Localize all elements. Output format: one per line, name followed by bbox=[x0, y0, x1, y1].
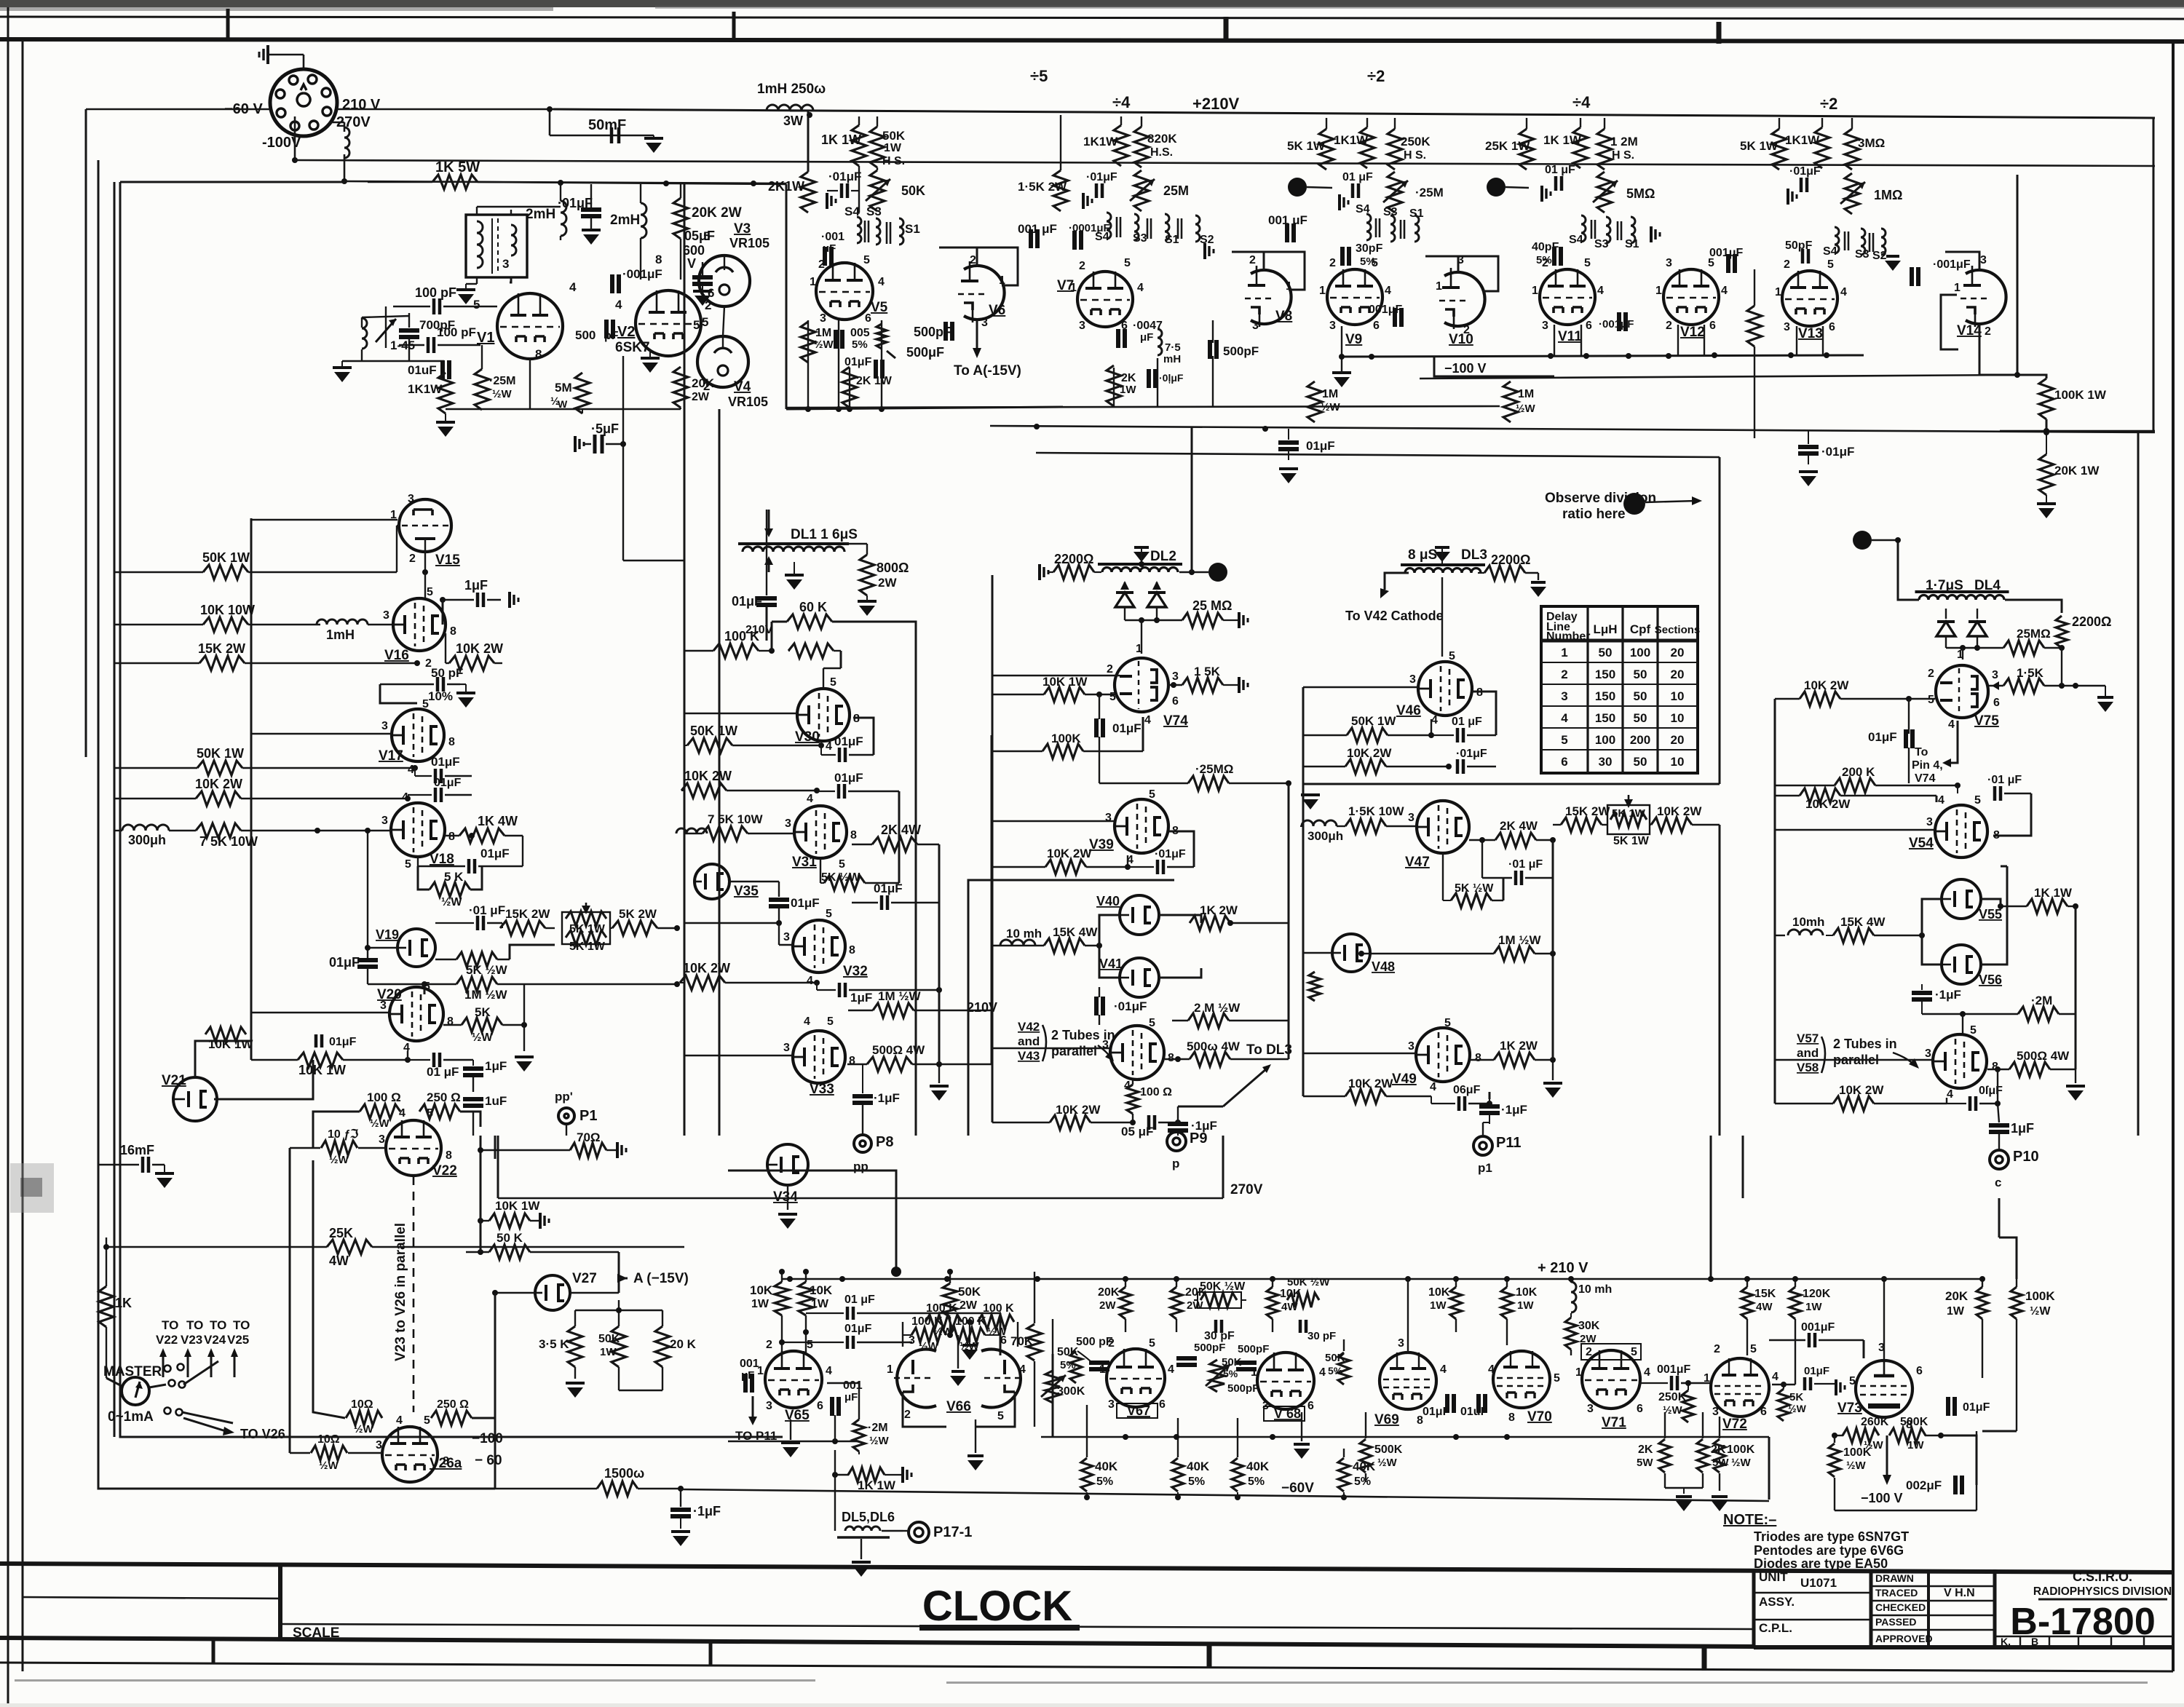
svg-text:6: 6 bbox=[1586, 320, 1592, 332]
svg-text:01μF: 01μF bbox=[1112, 721, 1142, 735]
res 2200ohm dl2 bbox=[1053, 565, 1094, 579]
svg-text:1·5K 2W: 1·5K 2W bbox=[1018, 180, 1067, 194]
svg-text:3: 3 bbox=[1587, 1403, 1594, 1415]
ground 50mF bbox=[644, 137, 663, 140]
cap 001uF v14 bbox=[1910, 267, 1914, 286]
svg-text:½W: ½W bbox=[472, 1031, 493, 1044]
svg-text:½W: ½W bbox=[441, 896, 462, 908]
row 15K2W bbox=[199, 656, 245, 670]
svg-text:10K 2W: 10K 2W bbox=[684, 769, 732, 783]
svg-text:1 2M: 1 2M bbox=[1610, 135, 1638, 148]
tube V56 bbox=[1942, 945, 1981, 984]
svg-text:P9: P9 bbox=[1190, 1130, 1207, 1146]
svg-text:5: 5 bbox=[1149, 1017, 1155, 1029]
svg-text:210 V: 210 V bbox=[342, 97, 381, 113]
svg-text:50K: 50K bbox=[598, 1333, 620, 1345]
cap 001uF v65l bbox=[743, 1374, 748, 1393]
junction 50mF bbox=[547, 106, 553, 112]
wire to P11 bbox=[1489, 1099, 1490, 1104]
tube V73 bbox=[1856, 1361, 1912, 1417]
svg-text:25M: 25M bbox=[1163, 183, 1189, 198]
delay line DL4 bbox=[1915, 590, 2009, 593]
svg-text:3: 3 bbox=[1980, 254, 1987, 266]
svg-text:6: 6 bbox=[1172, 695, 1179, 708]
svg-text:− 60: − 60 bbox=[475, 1453, 502, 1468]
cap 001uF v10 bbox=[1393, 308, 1397, 327]
svg-text:V: V bbox=[687, 256, 696, 271]
svg-text:5: 5 bbox=[1149, 1337, 1155, 1350]
tube V39 bbox=[1115, 799, 1168, 853]
svg-text:·25M: ·25M bbox=[489, 375, 515, 387]
svg-text:½W: ½W bbox=[370, 1117, 390, 1130]
wire diode join dl4 bbox=[1946, 647, 1977, 649]
scan noise top edge bbox=[0, 0, 2184, 7]
res 2200ohm dl3 bbox=[1484, 566, 1525, 580]
svg-text:To: To bbox=[1915, 746, 1928, 759]
res 15K4W r bbox=[1833, 928, 1874, 943]
pot .25M bbox=[1388, 172, 1402, 213]
wire 1K5W row bbox=[368, 181, 432, 183]
svg-text:5: 5 bbox=[830, 676, 836, 689]
svg-text:½W: ½W bbox=[987, 1326, 1008, 1338]
svg-text:20: 20 bbox=[1671, 668, 1685, 681]
bus bottom left segment bbox=[728, 1441, 859, 1443]
inductor 1mH b bbox=[317, 619, 368, 625]
svg-text:1500ω: 1500ω bbox=[604, 1466, 644, 1481]
resistor 2K1W b bbox=[842, 367, 857, 408]
svg-text:V67: V67 bbox=[1127, 1403, 1150, 1418]
resistor 20K 2W bbox=[673, 198, 688, 239]
cap 1uF v20 bbox=[463, 1066, 483, 1071]
wire v1 bottom bbox=[529, 359, 531, 409]
cap 01uF v7 bbox=[1095, 183, 1099, 198]
svg-text:2K: 2K bbox=[1121, 372, 1136, 384]
svg-text:100K: 100K bbox=[1843, 1446, 1872, 1459]
svg-text:·01μF: ·01μF bbox=[1821, 445, 1854, 459]
svg-text:3: 3 bbox=[1108, 1398, 1115, 1411]
svg-text:50mF: 50mF bbox=[588, 117, 626, 133]
svg-text:5: 5 bbox=[703, 229, 710, 243]
delay line DL3 bbox=[1401, 563, 1485, 566]
jack P8 bbox=[854, 1135, 871, 1152]
svg-text:15K 2W: 15K 2W bbox=[1565, 804, 1610, 818]
wire V27 wires bbox=[495, 1292, 535, 1294]
svg-text:2: 2 bbox=[1561, 668, 1567, 681]
svg-text:1: 1 bbox=[1099, 1363, 1106, 1376]
wire V46 pin3 row bbox=[1303, 686, 1418, 688]
svg-text:and: and bbox=[1797, 1046, 1819, 1060]
res 1K4W bbox=[459, 828, 505, 843]
svg-text:1mH: 1mH bbox=[326, 627, 355, 642]
svg-text:5%: 5% bbox=[1060, 1359, 1076, 1371]
svg-text:V H.N: V H.N bbox=[1944, 1587, 1975, 1599]
svg-text:3·5 K: 3·5 K bbox=[539, 1337, 569, 1351]
svg-text:V2: V2 bbox=[617, 324, 635, 340]
tube V65 bbox=[765, 1351, 822, 1408]
svg-text:pp': pp' bbox=[555, 1090, 573, 1104]
svg-text:V41: V41 bbox=[1099, 957, 1123, 971]
svg-text:2: 2 bbox=[818, 258, 825, 271]
wire v75 pin5 bbox=[1909, 698, 1935, 700]
res 10K4W bbox=[1267, 1287, 1278, 1319]
tube V32 bbox=[793, 920, 845, 973]
title block grid bbox=[1752, 1569, 1756, 1647]
svg-text:+210V: +210V bbox=[1192, 95, 1240, 113]
svg-text:10Ω: 10Ω bbox=[351, 1398, 373, 1411]
tube V75 bbox=[1936, 665, 1988, 718]
res 100K half b1 bbox=[911, 1328, 946, 1342]
res 5K half v47 bbox=[1451, 893, 1492, 908]
resistor 5M half bbox=[575, 373, 590, 413]
svg-text:8: 8 bbox=[849, 944, 855, 957]
svg-text:1K: 1K bbox=[115, 1296, 132, 1310]
svg-text:6: 6 bbox=[1916, 1365, 1923, 1377]
res 50K5pc d bbox=[1338, 1352, 1350, 1385]
ground mid 25M bbox=[1301, 793, 1320, 796]
svg-text:μF: μF bbox=[1140, 331, 1153, 344]
res 500uF small bbox=[877, 324, 887, 349]
svg-text:3: 3 bbox=[1409, 673, 1416, 686]
svg-text:H S.: H S. bbox=[882, 155, 905, 167]
svg-text:5: 5 bbox=[702, 315, 708, 329]
svg-text:500: 500 bbox=[575, 328, 596, 342]
svg-text:S3: S3 bbox=[1594, 238, 1609, 250]
res 100K d bbox=[788, 643, 834, 658]
svg-text:·001μF: ·001μF bbox=[622, 267, 662, 281]
svg-text:c: c bbox=[1995, 1176, 2001, 1189]
svg-text:5K: 5K bbox=[1789, 1391, 1803, 1403]
svg-text:100K: 100K bbox=[1727, 1443, 1755, 1456]
cap 01uF e bbox=[874, 360, 878, 379]
tube V18 bbox=[391, 803, 445, 857]
inductor 270V feed bbox=[344, 127, 349, 158]
pot 5K1W pair bbox=[562, 912, 610, 944]
svg-text:1 5K: 1 5K bbox=[1194, 665, 1221, 678]
wire V39 pin3 row bbox=[992, 820, 1115, 822]
svg-text:V57: V57 bbox=[1797, 1031, 1819, 1045]
svg-text:1: 1 bbox=[1070, 282, 1077, 294]
diode D1 bbox=[1115, 593, 1134, 607]
svg-text:50: 50 bbox=[1634, 711, 1647, 725]
row 50K1W bbox=[203, 565, 248, 579]
svg-text:15K 4W: 15K 4W bbox=[1053, 925, 1098, 939]
svg-text:4: 4 bbox=[1561, 711, 1568, 725]
svg-text:600: 600 bbox=[683, 243, 705, 258]
svg-text:V74: V74 bbox=[1163, 713, 1188, 729]
svg-text:5: 5 bbox=[1149, 788, 1155, 801]
wire V30 pin5 bbox=[823, 668, 841, 669]
svg-text:NOTE:–: NOTE:– bbox=[1723, 1512, 1776, 1528]
tube V5 bbox=[816, 263, 873, 320]
wire DL4 left bbox=[1898, 540, 1919, 600]
svg-text:4: 4 bbox=[1597, 285, 1604, 297]
tube V67 bbox=[1107, 1349, 1165, 1407]
tube V7 bbox=[1077, 272, 1133, 327]
wire dl3 col verticals bbox=[1302, 687, 1305, 1096]
svg-text:50K 1W: 50K 1W bbox=[202, 550, 250, 565]
svg-text:40pF: 40pF bbox=[1532, 241, 1559, 253]
frame top tick 3 bbox=[1224, 17, 1229, 41]
tube V3 VR105 bbox=[699, 256, 750, 306]
svg-text:V1: V1 bbox=[477, 330, 494, 346]
svg-text:To V42 Cathode: To V42 Cathode bbox=[1345, 609, 1444, 623]
tube V2 6SK7 bbox=[636, 290, 701, 356]
svg-text:½W: ½W bbox=[933, 1326, 954, 1338]
cap 001uF v6 bbox=[1029, 229, 1033, 248]
svg-text:7 5K 10W: 7 5K 10W bbox=[199, 834, 258, 849]
svg-text:1W: 1W bbox=[1907, 1439, 1924, 1451]
delay line table grid bbox=[1541, 606, 1698, 773]
svg-text:1W: 1W bbox=[884, 142, 902, 154]
cap 01uF v13 bbox=[1800, 178, 1803, 192]
wire v73 top bbox=[1883, 1279, 1885, 1360]
svg-text:S4: S4 bbox=[1095, 231, 1109, 243]
row 10K2W v54a bbox=[1800, 692, 1840, 706]
svg-text:H.S.: H.S. bbox=[1150, 146, 1173, 159]
wire bottom rail y1757 bbox=[783, 1278, 1518, 1280]
cap 01uF dl1 bbox=[756, 596, 777, 601]
svg-text:4W: 4W bbox=[329, 1253, 349, 1268]
ground v66mid bbox=[962, 1344, 977, 1347]
wire V54 pin3 row bbox=[1775, 829, 1935, 831]
svg-text:30K: 30K bbox=[1578, 1320, 1600, 1332]
svg-text:6: 6 bbox=[1760, 1406, 1767, 1418]
svg-text:S3: S3 bbox=[1133, 232, 1147, 245]
wire left vertical B bbox=[98, 160, 495, 1489]
capacitor .001uF V2 bbox=[610, 274, 614, 293]
wire to P9 bbox=[1177, 1106, 1179, 1122]
cap 01uF v30 bbox=[838, 748, 842, 762]
svg-text:01μF: 01μF bbox=[834, 771, 863, 785]
capacitor .5uF bbox=[574, 436, 577, 452]
cap 05uF v42 bbox=[1147, 1115, 1151, 1130]
svg-text:5: 5 bbox=[424, 981, 430, 993]
ground V34 bbox=[778, 1213, 797, 1216]
svg-text:300μh: 300μh bbox=[1307, 829, 1343, 843]
res 5K half v72 bbox=[1778, 1389, 1789, 1421]
tube V9 bbox=[1327, 269, 1382, 325]
svg-text:1: 1 bbox=[1319, 285, 1326, 297]
svg-text:5: 5 bbox=[1750, 1343, 1757, 1355]
svg-text:2: 2 bbox=[1586, 1346, 1592, 1358]
ground v72b bbox=[1712, 1495, 1728, 1498]
wire DL2 right bbox=[1179, 571, 1208, 573]
frame top thin line bbox=[0, 17, 2184, 19]
tube V54 bbox=[1935, 805, 1987, 858]
svg-text:4: 4 bbox=[804, 1015, 810, 1028]
svg-text:3: 3 bbox=[502, 257, 509, 271]
capacitor 700pF bbox=[399, 328, 419, 333]
svg-text:500Ω 4W: 500Ω 4W bbox=[872, 1043, 925, 1057]
svg-text:10K: 10K bbox=[750, 1283, 773, 1297]
svg-text:RADIOPHYSICS DIVISION: RADIOPHYSICS DIVISION bbox=[2033, 1585, 2172, 1598]
svg-text:mH: mH bbox=[1163, 353, 1181, 365]
res 100K half v66a bbox=[925, 1315, 962, 1329]
res 500w4W bbox=[1190, 1052, 1230, 1066]
svg-text:5: 5 bbox=[427, 586, 433, 598]
res 1K2W v49 bbox=[1494, 1053, 1535, 1067]
svg-text:3: 3 bbox=[1925, 1047, 1931, 1060]
res 5K half v31 bbox=[824, 876, 865, 890]
diode D4 bbox=[1968, 622, 1987, 636]
svg-text:−100: −100 bbox=[472, 1431, 503, 1446]
svg-text:20K 2W: 20K 2W bbox=[692, 205, 742, 221]
res .2M bbox=[2018, 1007, 2059, 1021]
svg-text:10K 2W: 10K 2W bbox=[1047, 847, 1092, 860]
cap 01uF v75 bbox=[1904, 729, 1908, 748]
cap 01uF v69 bbox=[1445, 1394, 1449, 1413]
tube V66 left bbox=[897, 1350, 936, 1408]
svg-text:4: 4 bbox=[807, 975, 813, 987]
jack P1 bbox=[558, 1108, 574, 1124]
svg-text:4: 4 bbox=[1440, 1363, 1447, 1376]
svg-text:5: 5 bbox=[693, 318, 700, 332]
svg-text:·25MΩ: ·25MΩ bbox=[1195, 762, 1233, 776]
svg-text:01μF: 01μF bbox=[329, 955, 360, 970]
label TO V26 bbox=[183, 1418, 226, 1431]
svg-text:8: 8 bbox=[1993, 829, 2000, 841]
tube V1 bbox=[497, 293, 563, 359]
wire cathode bus bbox=[446, 408, 681, 410]
svg-text:50K: 50K bbox=[958, 1285, 981, 1299]
svg-text:4: 4 bbox=[569, 280, 577, 294]
svg-text:TRACED: TRACED bbox=[1875, 1587, 1918, 1599]
scan smudge left edge bbox=[10, 1163, 54, 1213]
cap 06uF v57 bbox=[1969, 1096, 1972, 1111]
svg-text:2: 2 bbox=[1666, 320, 1672, 332]
svg-text:20K 1W: 20K 1W bbox=[2054, 464, 2100, 478]
frame left outer line bbox=[7, 7, 9, 1703]
cap 1uF p10 bbox=[1989, 1123, 2009, 1128]
wire xfmr to V1 pin3 bbox=[510, 277, 511, 282]
svg-text:50: 50 bbox=[1634, 689, 1647, 703]
svg-text:To DL3: To DL3 bbox=[1246, 1042, 1292, 1058]
svg-text:3: 3 bbox=[1408, 1040, 1415, 1053]
svg-text:3: 3 bbox=[909, 1334, 915, 1347]
svg-text:50K: 50K bbox=[1325, 1352, 1345, 1364]
svg-text:5: 5 bbox=[1970, 1024, 1977, 1037]
svg-text:4: 4 bbox=[396, 1414, 403, 1427]
svg-text:15K 2W: 15K 2W bbox=[505, 907, 550, 921]
svg-text:500pF: 500pF bbox=[1238, 1343, 1269, 1355]
svg-text:5K: 5K bbox=[475, 1005, 491, 1019]
title small row bbox=[1995, 1636, 2173, 1637]
svg-text:250K: 250K bbox=[1658, 1391, 1687, 1403]
svg-text:1W: 1W bbox=[1517, 1299, 1534, 1312]
svg-text:8: 8 bbox=[448, 736, 455, 748]
svg-text:10Ω: 10Ω bbox=[317, 1433, 340, 1446]
svg-text:005: 005 bbox=[850, 327, 870, 339]
svg-text:PASSED: PASSED bbox=[1875, 1616, 1917, 1628]
svg-text:−100 V: −100 V bbox=[1444, 361, 1487, 376]
switch master contacts bbox=[165, 1366, 171, 1372]
svg-text:4: 4 bbox=[826, 1365, 832, 1377]
wire V20 pin3 row bbox=[251, 1012, 390, 1013]
cap 16mF bbox=[141, 1157, 145, 1173]
svg-text:4: 4 bbox=[1431, 714, 1438, 726]
wire 270V pin bbox=[329, 122, 344, 124]
svg-text:V56: V56 bbox=[1979, 973, 2002, 987]
svg-text:2 M ½W: 2 M ½W bbox=[1194, 1001, 1241, 1015]
svg-text:4: 4 bbox=[1938, 794, 1944, 807]
svg-text:1MΩ: 1MΩ bbox=[1874, 188, 1902, 202]
svg-text:5: 5 bbox=[1827, 258, 1834, 271]
svg-text:V54: V54 bbox=[1909, 836, 1934, 851]
svg-text:V46: V46 bbox=[1396, 703, 1421, 718]
cap 01uF v19b bbox=[476, 916, 480, 930]
svg-text:5: 5 bbox=[1554, 1372, 1560, 1385]
svg-text:V13: V13 bbox=[1798, 326, 1823, 341]
svg-text:50K: 50K bbox=[882, 129, 906, 143]
cap 500pF b3 bbox=[1236, 1361, 1257, 1365]
row 10K2W v49 bbox=[1345, 1089, 1386, 1104]
svg-text:S4: S4 bbox=[1823, 245, 1837, 258]
pot 25M bbox=[1134, 170, 1149, 211]
svg-text:3: 3 bbox=[785, 817, 791, 830]
svg-text:B: B bbox=[2031, 1636, 2038, 1647]
svg-text:210V: 210V bbox=[745, 624, 773, 636]
svg-text:0~1mA: 0~1mA bbox=[108, 1409, 154, 1425]
res 20K2W b bbox=[1171, 1287, 1182, 1319]
svg-text:001 μF: 001 μF bbox=[1018, 222, 1057, 236]
svg-text:500μF: 500μF bbox=[906, 345, 944, 360]
res 5K1W b bbox=[1772, 129, 1787, 170]
svg-text:820K: 820K bbox=[1147, 132, 1177, 146]
res 1K1W v55 bbox=[2027, 899, 2068, 914]
cap 001uF v12 bbox=[1726, 254, 1730, 273]
ground transformer bbox=[456, 288, 475, 291]
wire V48 in bbox=[1303, 952, 1332, 954]
svg-text:3: 3 bbox=[1408, 812, 1415, 824]
svg-text:10K 2W: 10K 2W bbox=[1347, 746, 1392, 760]
svg-text:5: 5 bbox=[405, 858, 411, 871]
wire V42 pin3 row bbox=[992, 1047, 1109, 1049]
svg-text:10: 10 bbox=[1671, 689, 1685, 703]
svg-text:1W: 1W bbox=[600, 1346, 617, 1358]
svg-text:DL3: DL3 bbox=[1461, 547, 1487, 563]
svg-text:2W: 2W bbox=[1187, 1299, 1203, 1312]
cap 005 5pc bbox=[834, 330, 838, 349]
svg-text:5K ½W: 5K ½W bbox=[821, 871, 860, 884]
cap 01uF v74 bbox=[1094, 718, 1099, 737]
wire V21 net bbox=[195, 1041, 251, 1077]
svg-text:5: 5 bbox=[422, 698, 429, 710]
tube V74 bbox=[1115, 658, 1168, 712]
row 300uh 1.5K10W bbox=[1302, 820, 1337, 826]
cap 1uF gnd bbox=[476, 593, 480, 607]
svg-text:ASSY.: ASSY. bbox=[1759, 1595, 1795, 1609]
svg-text:250 Ω: 250 Ω bbox=[437, 1398, 469, 1411]
capacitor 01uF k bbox=[440, 360, 445, 379]
row 10K2W v46 bbox=[1345, 759, 1386, 774]
svg-text:2200Ω: 2200Ω bbox=[2072, 614, 2111, 629]
svg-text:Pentodes are type 6V6G: Pentodes are type 6V6G bbox=[1754, 1543, 1904, 1558]
wire v73 net bbox=[1883, 1417, 1885, 1425]
svg-text:8: 8 bbox=[448, 831, 455, 843]
svg-text:4: 4 bbox=[807, 793, 813, 805]
svg-text:10K 1W: 10K 1W bbox=[298, 1063, 346, 1077]
res 200K v54 bbox=[1835, 778, 1875, 793]
svg-text:1: 1 bbox=[1704, 1372, 1710, 1385]
ground bottom V1 bbox=[436, 421, 455, 424]
svg-text:8: 8 bbox=[450, 625, 456, 638]
svg-text:10mh: 10mh bbox=[1792, 915, 1824, 929]
frame top tick 2 bbox=[732, 12, 736, 41]
svg-text:V21: V21 bbox=[162, 1073, 186, 1088]
svg-text:01uF: 01uF bbox=[1460, 1406, 1488, 1418]
svg-text:1·7μS: 1·7μS bbox=[1926, 578, 1963, 593]
svg-text:10K: 10K bbox=[810, 1283, 833, 1297]
